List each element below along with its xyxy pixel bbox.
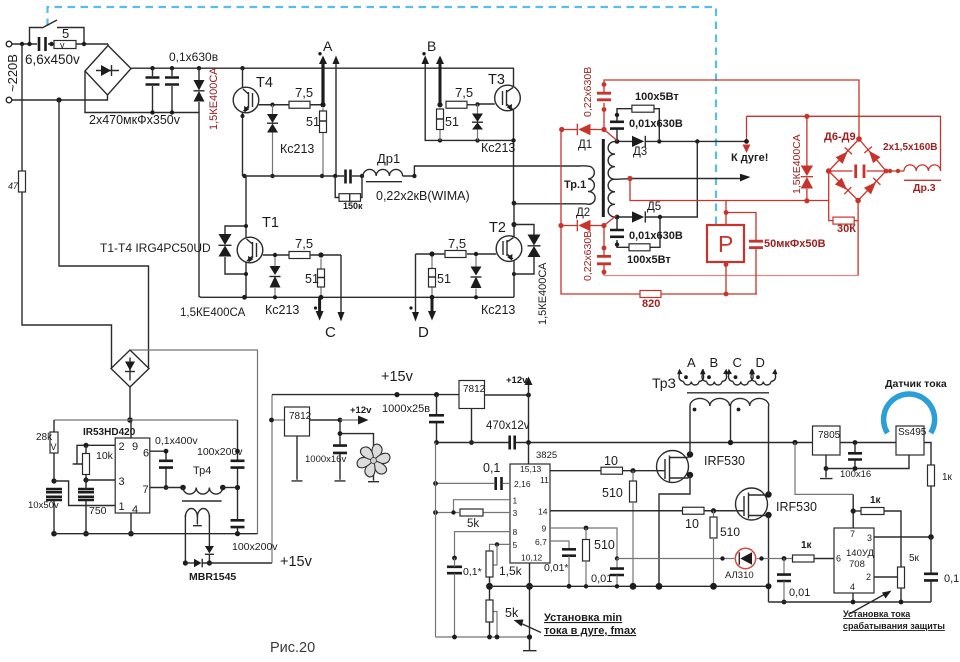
svg-text:Установка тока: Установка тока (843, 609, 911, 619)
svg-text:0,1х630в: 0,1х630в (169, 50, 218, 64)
svg-text:IRF530: IRF530 (704, 454, 745, 468)
svg-text:150к: 150к (343, 201, 363, 211)
svg-text:IRF530: IRF530 (776, 500, 817, 514)
svg-text:510: 510 (720, 525, 740, 539)
svg-text:D: D (418, 324, 429, 341)
svg-text:1: 1 (119, 501, 125, 513)
svg-text:К дуге!: К дуге! (731, 152, 768, 164)
svg-text:+12v: +12v (350, 405, 372, 416)
svg-text:тока в дуге, fmax: тока в дуге, fmax (544, 625, 637, 637)
svg-text:Кс213: Кс213 (265, 303, 299, 317)
svg-text:Кс213: Кс213 (481, 303, 515, 317)
svg-text:Т1-Т4 IRG4PC50UD: Т1-Т4 IRG4PC50UD (100, 241, 211, 255)
svg-text:0,01х630В: 0,01х630В (629, 230, 683, 242)
svg-text:1,5КЕ400СА: 1,5КЕ400СА (791, 134, 803, 194)
svg-text:MBR1545: MBR1545 (189, 571, 236, 583)
svg-text:0,1х400v: 0,1х400v (155, 435, 198, 447)
svg-text:2: 2 (119, 441, 125, 453)
svg-text:51: 51 (305, 272, 319, 286)
svg-text:А: А (687, 355, 696, 370)
svg-text:+15v: +15v (381, 369, 414, 385)
svg-text:6,7: 6,7 (535, 537, 547, 547)
svg-text:9: 9 (542, 524, 547, 534)
svg-text:Д1: Д1 (578, 139, 592, 151)
svg-text:10k: 10k (96, 450, 114, 462)
svg-text:10: 10 (685, 517, 699, 531)
svg-text:140УД: 140УД (846, 548, 874, 559)
svg-text:1,5k: 1,5k (499, 564, 523, 578)
svg-text:7,5: 7,5 (455, 85, 473, 100)
svg-text:Тр4: Тр4 (193, 465, 211, 477)
svg-text:v: v (60, 40, 65, 50)
svg-text:срабатывания защиты: срабатывания защиты (843, 621, 945, 631)
svg-text:2х470мкФх350v: 2х470мкФх350v (89, 113, 181, 127)
svg-text:Д3: Д3 (633, 146, 647, 158)
svg-text:51: 51 (306, 115, 320, 129)
svg-text:Д5: Д5 (647, 201, 661, 213)
svg-text:Д2: Д2 (576, 207, 590, 219)
svg-text:1,5КЕ400СА: 1,5КЕ400СА (180, 307, 246, 319)
svg-text:6,6х450v: 6,6х450v (25, 52, 80, 67)
svg-text:1к: 1к (870, 495, 882, 506)
svg-text:Рис.20: Рис.20 (270, 640, 315, 656)
svg-text:Д6-Д9: Д6-Д9 (824, 131, 856, 143)
svg-text:0,1: 0,1 (944, 573, 959, 585)
svg-text:5: 5 (513, 540, 518, 550)
svg-text:ТрЗ: ТрЗ (652, 375, 676, 391)
svg-text:10: 10 (604, 454, 618, 468)
svg-text:Ss495: Ss495 (898, 427, 927, 438)
svg-text:Т1: Т1 (262, 215, 279, 231)
svg-text:+12v: +12v (506, 375, 528, 386)
svg-text:А: А (323, 38, 333, 54)
svg-text:28k: 28k (36, 432, 53, 443)
svg-text:10,12: 10,12 (521, 553, 543, 563)
svg-text:Кс213: Кс213 (280, 142, 314, 156)
svg-text:7,5: 7,5 (448, 236, 466, 251)
svg-text:+15v: +15v (280, 554, 313, 570)
svg-text:Датчик тока: Датчик тока (885, 378, 947, 390)
svg-text:15,13: 15,13 (520, 464, 542, 474)
svg-text:8: 8 (513, 527, 518, 537)
svg-text:9: 9 (132, 441, 138, 453)
svg-text:1,5КЕ400СА: 1,5КЕ400СА (537, 262, 549, 325)
svg-text:1к: 1к (801, 540, 813, 551)
svg-text:С: С (733, 355, 742, 370)
svg-text:Т3: Т3 (488, 72, 505, 88)
svg-text:~220В: ~220В (5, 54, 20, 92)
svg-text:7,5: 7,5 (295, 236, 313, 251)
svg-text:100х200v: 100х200v (232, 541, 278, 553)
svg-text:Кс213: Кс213 (481, 141, 515, 155)
svg-text:Р: Р (718, 231, 733, 257)
svg-text:100х5Вт: 100х5Вт (627, 254, 671, 266)
svg-text:Др1: Др1 (377, 151, 400, 166)
svg-text:708: 708 (849, 559, 865, 570)
svg-text:0,01х630В: 0,01х630В (629, 118, 683, 130)
svg-text:2,16: 2,16 (514, 479, 531, 489)
svg-text:7: 7 (143, 484, 149, 496)
svg-text:5к: 5к (909, 553, 920, 564)
svg-text:АЛ310: АЛ310 (725, 570, 754, 581)
svg-text:0,1: 0,1 (483, 461, 500, 475)
svg-text:750: 750 (89, 505, 107, 517)
svg-text:4: 4 (132, 504, 138, 516)
svg-text:0,22х630В: 0,22х630В (582, 231, 594, 281)
svg-text:10х50v: 10х50v (28, 500, 59, 511)
svg-text:47: 47 (8, 181, 19, 191)
svg-text:В: В (427, 38, 436, 54)
svg-text:5: 5 (62, 26, 69, 41)
svg-text:2х1,5х160В: 2х1,5х160В (883, 142, 938, 153)
svg-text:1000х25в: 1000х25в (382, 403, 430, 415)
svg-text:3: 3 (513, 508, 518, 518)
svg-text:50мкФх50В: 50мкФх50В (764, 238, 826, 250)
svg-text:51: 51 (437, 272, 451, 286)
svg-text:V: V (51, 442, 57, 452)
svg-text:6: 6 (143, 448, 149, 460)
svg-text:1,5КЕ400СА: 1,5КЕ400СА (208, 67, 220, 130)
svg-text:100х16: 100х16 (840, 469, 871, 480)
svg-text:Тр.1: Тр.1 (564, 179, 586, 191)
svg-text:510: 510 (594, 538, 615, 552)
svg-text:7: 7 (850, 529, 855, 539)
svg-text:14: 14 (538, 507, 548, 517)
svg-text:7,5: 7,5 (295, 85, 313, 100)
svg-text:1: 1 (513, 496, 518, 506)
svg-text:100х200v: 100х200v (197, 446, 243, 458)
svg-text:Др.3: Др.3 (913, 182, 936, 194)
svg-text:Установка min: Установка min (544, 612, 622, 624)
svg-text:7805: 7805 (818, 430, 841, 441)
svg-text:2: 2 (866, 572, 871, 582)
svg-text:IR53HD420: IR53HD420 (83, 427, 136, 438)
svg-text:0,01: 0,01 (591, 573, 612, 585)
svg-text:0,22х2кВ(WIMA): 0,22х2кВ(WIMA) (376, 189, 470, 203)
svg-text:3825: 3825 (536, 450, 557, 461)
svg-text:С: С (325, 324, 336, 341)
svg-text:0,22х630В: 0,22х630В (582, 67, 594, 117)
svg-text:0,01: 0,01 (789, 587, 810, 599)
svg-text:Т2: Т2 (489, 220, 506, 236)
svg-text:7812: 7812 (289, 411, 312, 422)
svg-text:30К: 30К (837, 223, 856, 235)
svg-text:510: 510 (602, 486, 623, 500)
svg-text:В: В (710, 355, 719, 370)
svg-text:Т4: Т4 (256, 75, 273, 91)
svg-text:0,01*: 0,01* (544, 562, 569, 574)
svg-text:5k: 5k (505, 606, 519, 620)
svg-text:1к: 1к (942, 472, 953, 483)
svg-text:4: 4 (850, 582, 855, 592)
svg-text:470х12v: 470х12v (486, 420, 530, 432)
svg-text:1000х16v: 1000х16v (305, 454, 346, 465)
svg-text:5k: 5k (467, 518, 479, 530)
svg-text:100х5Вт: 100х5Вт (635, 91, 679, 103)
svg-text:0,1*: 0,1* (463, 566, 482, 578)
svg-text:11: 11 (540, 475, 549, 485)
svg-text:3: 3 (119, 476, 125, 488)
svg-text:6: 6 (836, 554, 841, 564)
svg-text:3: 3 (867, 533, 872, 543)
svg-text:820: 820 (642, 298, 660, 310)
svg-text:D: D (756, 355, 765, 370)
svg-text:7812: 7812 (463, 384, 486, 395)
svg-text:51: 51 (445, 115, 459, 129)
